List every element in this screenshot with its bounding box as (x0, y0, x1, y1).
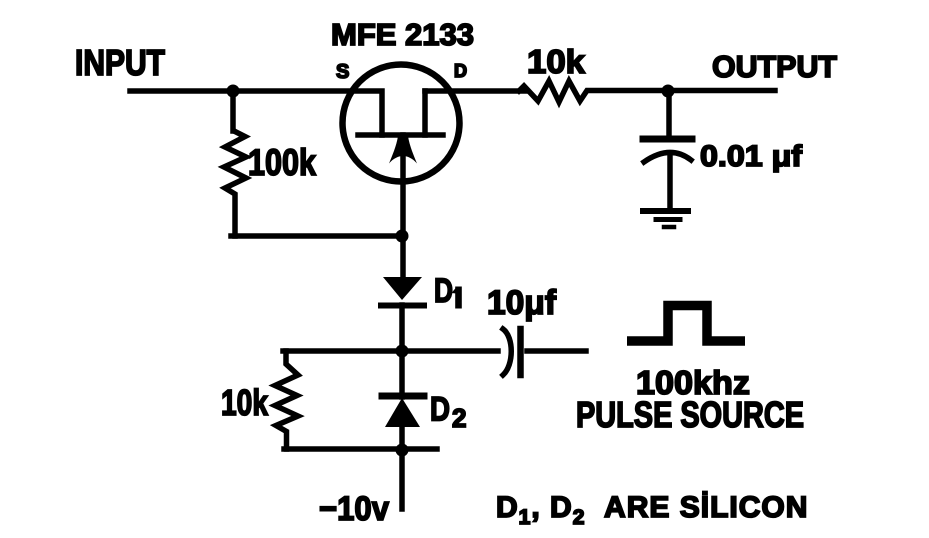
svg-text:INPUT: INPUT (75, 42, 165, 83)
svg-text:D1, D2 ARE SİLICON: D1, D2 ARE SİLICON (496, 491, 808, 529)
svg-text:S: S (336, 61, 349, 83)
svg-text:100k: 100k (248, 142, 316, 183)
svg-text:D: D (430, 391, 450, 429)
svg-text:OUTPUT: OUTPUT (712, 49, 837, 84)
svg-text:2: 2 (452, 403, 466, 433)
svg-text:10μf: 10μf (487, 284, 557, 322)
svg-text:−10v: −10v (319, 490, 389, 528)
svg-text:PULSE SOURCE: PULSE SOURCE (576, 394, 804, 435)
svg-text:MFE 2133: MFE 2133 (331, 17, 474, 52)
svg-text:10k: 10k (527, 43, 586, 80)
svg-text:0.01 μf: 0.01 μf (700, 140, 803, 173)
svg-text:D: D (434, 272, 453, 310)
svg-text:10k: 10k (221, 382, 269, 423)
svg-text:D: D (454, 61, 467, 81)
